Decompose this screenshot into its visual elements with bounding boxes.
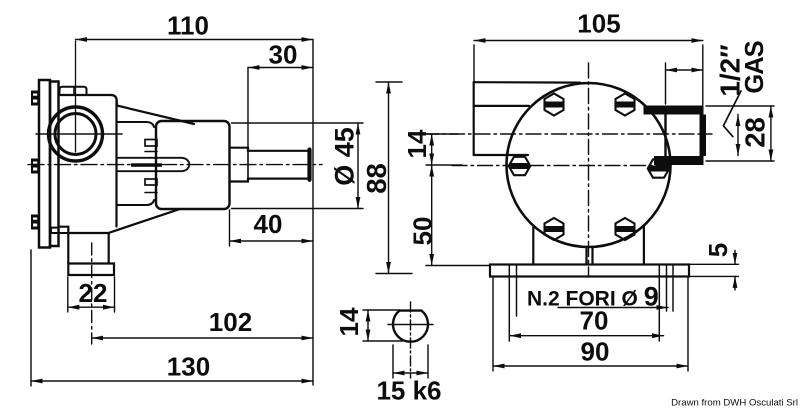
svg-text:30: 30 [269,40,298,70]
svg-text:28: 28 [739,117,770,148]
svg-text:14: 14 [402,129,432,158]
svg-text:105: 105 [577,9,620,39]
svg-text:50: 50 [408,217,438,246]
svg-text:90: 90 [581,337,610,367]
svg-text:14: 14 [334,307,364,336]
svg-text:Ø 45: Ø 45 [330,127,360,186]
svg-text:40: 40 [254,209,283,239]
svg-text:130: 130 [167,352,210,382]
svg-text:GAS: GAS [741,40,769,93]
svg-text:102: 102 [209,307,252,337]
svg-text:5: 5 [703,243,733,257]
svg-text:Drawn from DWH Osculati Srl: Drawn from DWH Osculati Srl [671,398,798,409]
svg-text:110: 110 [167,11,209,41]
svg-text:88: 88 [361,163,392,194]
svg-text:15 k6: 15 k6 [376,376,441,406]
svg-text:22: 22 [79,278,108,308]
svg-text:N.2 FORI Ø 9: N.2 FORI Ø 9 [527,282,659,312]
